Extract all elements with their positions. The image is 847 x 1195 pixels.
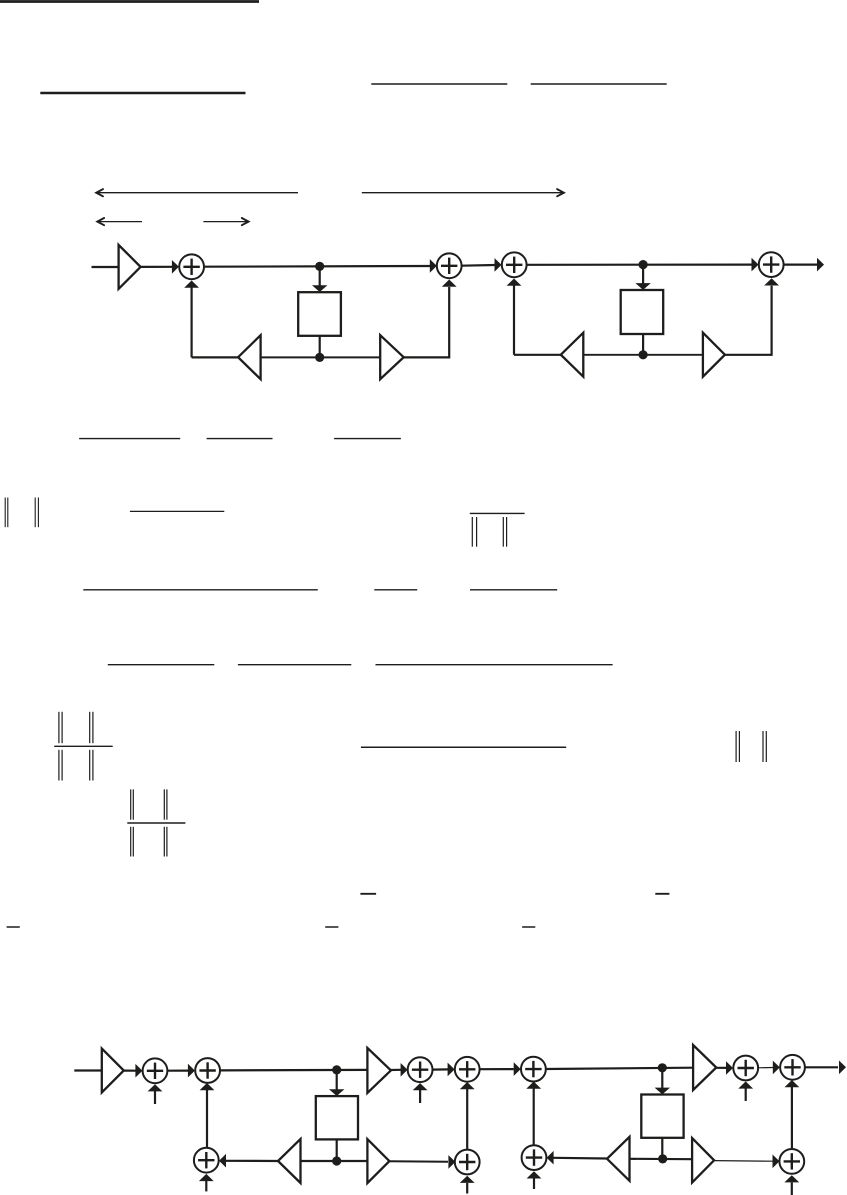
wire: adder B6 output up into adder B4 (466, 1089, 468, 1150)
error input arrow into adder B6 (466, 1183, 468, 1194)
wire: output arrow y(n) (805, 1066, 838, 1068)
wire: triangle to adder B8 (716, 1067, 726, 1069)
wire: delay output down to feedback rail (336, 1139, 338, 1161)
underline: k2 term (470, 589, 557, 591)
adder B9 (output summer) (780, 1055, 805, 1080)
norm close delimiter || (denominator) (503, 517, 506, 547)
wire: adder B1 to adder B2 (167, 1069, 188, 1071)
adder B7 (section 2 input summer) (521, 1057, 546, 1082)
span arrow over sections 1+2 (left part, head left) (98, 192, 299, 194)
wire: adder B5 output up into adder B2 (206, 1090, 208, 1148)
junction node v2(n) (658, 1063, 667, 1072)
error input arrow into adder B10 (533, 1179, 535, 1190)
adder A2 (section 1 output summer) (437, 253, 462, 278)
wire: triangle to adder B3 (391, 1069, 401, 1071)
adder B4 (section 1 output summer) (455, 1057, 480, 1082)
junction node w2(n-1) (639, 350, 648, 359)
feedback: rail up into adder A3 (513, 285, 515, 355)
adder A1 (section 1 input summer) (179, 254, 204, 279)
error input arrow into adder B5 (205, 1181, 207, 1191)
wire: node w1 down to delay (319, 266, 321, 286)
junction node w1(n) (315, 262, 324, 271)
underline: Chebyshev norm definition (238, 664, 351, 666)
wire: node w2 down to delay (642, 265, 644, 284)
underline under H2(z) term (531, 83, 667, 85)
norm close delimiter || (numerator, ratio 2) (164, 789, 167, 819)
feedback: rail up into adder A1 (191, 287, 193, 357)
wire: delay output down to feedback rail (661, 1138, 663, 1159)
wire: gain k1 to adder B1 (124, 1069, 136, 1071)
underline: norm argument F1(z) (130, 510, 224, 512)
span arrow over sections 1+2 (right part, head right) (362, 192, 563, 194)
norm close delimiter || (scaling rule, left) (35, 498, 38, 528)
coefficient a gain (left triangle, quantized section 1) (278, 1139, 301, 1183)
underline: H1(z) factor (207, 438, 273, 440)
underline: scaling policy expression (376, 664, 613, 666)
norm open delimiter || (denominator, ratio 1) (59, 750, 62, 781)
gain k1 triangle (quantized structure) (102, 1049, 124, 1093)
underline: L2 norm definition (108, 664, 215, 666)
wire: node v2 down to delay (661, 1068, 663, 1089)
gain 1/k (top rail triangle, section 2) (693, 1045, 716, 1090)
norm open delimiter || (scaling rule, left) (5, 498, 8, 528)
wire: adder B4 to adder B7 (480, 1068, 514, 1070)
error input arrow into adder B11 (791, 1183, 793, 1195)
overbar on symbol (line start) (7, 926, 20, 928)
feedback rail section 2 (right run + up to adder A4) (725, 286, 772, 355)
junction node v2(n-1) (658, 1154, 667, 1163)
norm open delimiter || (denominator) (472, 517, 476, 547)
underline: peak gain statement (361, 746, 566, 748)
heading underline (page top rule) (0, 0, 259, 3)
underline: scaled coefficients expression (83, 589, 317, 591)
wire: input x(n) to gain k1 (92, 266, 119, 268)
norm close delimiter || (denominator, ratio 1) (90, 750, 93, 781)
norm close delimiter || (denominator, ratio 2) (164, 827, 167, 857)
delay block z^-1 (section 1) (298, 292, 341, 336)
junction node w1(n-1) (315, 353, 324, 362)
coefficient a2 gain (left triangle, section 2) (561, 333, 584, 377)
overbar on quantized signal (left) (360, 893, 376, 895)
norm open delimiter || (numerator, ratio 2) (131, 789, 134, 819)
wire: delay output down to feedback rail (319, 336, 321, 358)
coefficient b1 gain (right triangle, section 1) (380, 335, 404, 379)
adder B2 (section 1 input summer) (195, 1058, 220, 1083)
wire: adder A1 to adder A2 (top rail section 1) (204, 265, 430, 268)
delay block z^-1 (quantized section 1) (316, 1096, 358, 1139)
wire: adder B2 to gain triangle (top rail section 1) (220, 1069, 368, 1072)
coefficient a gain (left triangle, quantized section 2) (607, 1137, 630, 1181)
wire: input to gain k1 (quantized structure) (74, 1069, 102, 1071)
gain k1 (input scaling triangle) (119, 245, 141, 289)
wire: left feedback triangle to adder B10 (head left) (554, 1157, 607, 1160)
fraction bar over norm (right expression) (470, 512, 525, 514)
feedback rail section 1 (left run) (192, 356, 239, 358)
wire: adder B3 to adder B4 (432, 1068, 448, 1070)
adder A3 (section 2 input summer) (502, 252, 527, 277)
fraction bar (ratio 1) (54, 745, 112, 747)
adder B1 (input quantizer summer) (143, 1058, 168, 1083)
norm open delimiter || (inline, right margin) (736, 731, 739, 762)
feedback rail section 2 (middle run) (583, 354, 703, 356)
coefficient b gain (right triangle, quantized section 1) (367, 1139, 389, 1183)
feedback rail section 2 (left run) (514, 354, 561, 356)
coefficient b2 gain (right triangle, section 2) (703, 333, 725, 377)
wire: left feedback triangle to adder B5 (head left) (226, 1160, 278, 1162)
underline: k1 term (374, 589, 417, 591)
wire: gain k1 to adder A1 (141, 266, 173, 268)
gain 1/k (top rail triangle, section 1) (367, 1048, 391, 1093)
norm open delimiter || (numerator, ratio 1) (59, 712, 62, 743)
wire: delay output down to feedback rail (642, 334, 644, 355)
junction node w2(n) (639, 260, 648, 269)
span arrow: section 2 (head right) (203, 221, 247, 223)
norm close delimiter || (inline, right margin) (763, 731, 766, 762)
quantization error e1 input arrow into adder B1 (154, 1091, 156, 1104)
quantization error input arrow into adder B8 (745, 1089, 747, 1102)
section heading underline (40, 92, 245, 95)
delay block z^-1 (quantized section 2) (641, 1095, 683, 1138)
wire: adder A2 to adder A3 (462, 264, 496, 267)
wire: right feedback triangle to adder B11 (thin) (714, 1160, 773, 1163)
adder B6 (feedback summer, section 1 right) (455, 1150, 480, 1175)
adder B3 (quantizer summer after section 1) (408, 1057, 433, 1082)
underline under H1(z) term (371, 83, 507, 85)
fraction bar (ratio 2) (127, 822, 185, 824)
wire: adder A3 to adder A4 (top rail section 2) (527, 264, 753, 266)
wire: node v1 down to delay (336, 1070, 338, 1090)
feedback rail section 1 (middle run) (261, 356, 381, 358)
overbar on symbol (right) (522, 926, 535, 928)
adder B11 (feedback summer, section 2 right) (779, 1149, 804, 1174)
coefficient b gain (right triangle, quantized section 2) (692, 1138, 714, 1183)
underline: H2(z) factor (334, 438, 401, 440)
junction node v1(n-1) (332, 1156, 341, 1165)
feedback rail section 2 (middle run) (630, 1158, 693, 1161)
delay block z^-1 (section 2) (621, 290, 664, 334)
adder B5 (feedback summer, section 1 left) (194, 1148, 219, 1173)
feedback rail section 1 (right run + up to adder A2) (404, 287, 450, 357)
norm open delimiter || (denominator, ratio 2) (131, 827, 134, 857)
wire: adder B11 output up into adder B9 (791, 1087, 793, 1150)
quantization error e2 input arrow into adder B3 (419, 1090, 421, 1103)
feedback rail section 1 (middle run) (301, 1160, 368, 1162)
wire: adder B8 to adder B9 (thin) (758, 1067, 773, 1069)
norm close delimiter || (numerator, ratio 1) (90, 712, 93, 743)
span arrow: section 1 (head left) (99, 221, 143, 223)
adder A4 (section 2 output summer) (759, 252, 784, 277)
underline: transfer function H(z) expression (79, 438, 180, 440)
junction node v1(n) (332, 1065, 341, 1074)
overbar on symbol (mid line) (325, 926, 338, 928)
wire: adder B10 output up into adder B7 (533, 1088, 535, 1145)
adder B10 (feedback summer, section 2 left) (522, 1145, 547, 1170)
wire: adder B7 to gain triangle (top rail section 2) (546, 1068, 693, 1069)
wire: right feedback triangle to adder B6 (389, 1160, 448, 1163)
wire: output y(n) arrow (784, 264, 817, 266)
adder B8 (quantizer summer after section 2) (733, 1056, 758, 1081)
coefficient a1 gain (left triangle, section 1) (238, 335, 261, 379)
overbar on quantized signal (right) (655, 893, 669, 895)
